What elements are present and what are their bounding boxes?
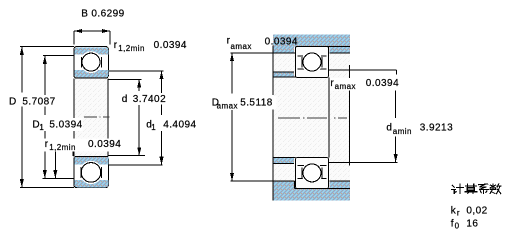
- B extension right / r callout: [109, 31, 111, 45]
- d extension bottom: [109, 155, 146, 157]
- bearing top half (left view): [74, 47, 108, 78]
- bore strip (between halves) hatched: [74, 78, 109, 156]
- shaft shoulder top-left: [273, 72, 296, 77]
- svg-text:r: r: [457, 208, 460, 217]
- svg-text:amin: amin: [393, 127, 412, 136]
- glyph shu 数: [490, 184, 501, 194]
- axis centerline (left view): [84, 116, 110, 118]
- svg-text:4.4094: 4.4094: [163, 120, 196, 131]
- arrow D1 bottom: [43, 170, 47, 178]
- svg-text:1,2min: 1,2min: [49, 143, 76, 152]
- svg-text:5.5118: 5.5118: [240, 98, 273, 109]
- arrow Damax top: [230, 53, 234, 61]
- label d1 4.4094: [145, 118, 196, 132]
- d dimension line: [138, 79, 140, 91]
- label D 5.7087: [8, 95, 56, 108]
- arrow d1 top: [159, 71, 163, 79]
- ball: [82, 53, 100, 71]
- arrow Damax bottom: [230, 173, 234, 181]
- shaft right face line: [328, 78, 330, 158]
- B extension left: [73, 31, 75, 45]
- svg-text:0.0394: 0.0394: [265, 37, 298, 48]
- Damax dimension line: [231, 53, 233, 94]
- label damin 3.9213: [385, 122, 453, 136]
- svg-text:d: d: [386, 122, 392, 133]
- svg-text:16: 16: [466, 219, 478, 230]
- D extension top: [20, 46, 74, 48]
- mounted bearing top half: [296, 46, 329, 77]
- svg-text:3.7402: 3.7402: [133, 94, 166, 105]
- svg-text:3.9213: 3.9213: [420, 122, 453, 133]
- svg-text:amax: amax: [217, 101, 238, 110]
- svg-text:0.0394: 0.0394: [154, 40, 187, 51]
- D1 extension top: [43, 55, 74, 57]
- shaft shoulder bottom-left: [273, 158, 296, 164]
- arrow B right: [102, 29, 110, 33]
- svg-text:5.0394: 5.0394: [49, 119, 82, 130]
- outer ring band (bottom): [75, 180, 109, 187]
- arrow D1 top: [43, 56, 47, 64]
- svg-text:amax: amax: [335, 82, 356, 91]
- axis centerline (right view): [278, 117, 347, 119]
- D1 extension bottom: [43, 177, 74, 179]
- housing top block: [273, 34, 350, 53]
- d1 extension bottom: [109, 164, 163, 166]
- outer ring band: [75, 47, 109, 54]
- damin dimension line: [395, 88, 397, 118]
- inner ring band (top): [75, 157, 109, 165]
- glyph suan 算: [465, 184, 477, 193]
- arrow B left: [74, 29, 82, 33]
- D1 dimension line: [44, 56, 46, 115]
- glyph xi 系: [479, 184, 489, 194]
- arrow r12 bottom: [53, 170, 57, 178]
- housing/shaft left edge line: [272, 46, 274, 201]
- label r 1,2min 0.0394 (bottom): [44, 138, 122, 152]
- r12 bottom leader: [54, 151, 56, 178]
- label r amax 0.0394 (right middle): [329, 78, 399, 91]
- inner ring band: [75, 70, 109, 78]
- svg-text:B: B: [81, 8, 88, 19]
- svg-text:d: d: [122, 94, 128, 105]
- damin extension bottom: [328, 161, 397, 163]
- svg-text:1: 1: [39, 123, 44, 132]
- svg-text:amax: amax: [231, 42, 252, 51]
- groove gap: [80, 51, 102, 73]
- r12 corner tick: [72, 151, 74, 156]
- svg-text:f: f: [451, 219, 454, 230]
- svg-text:0.0394: 0.0394: [88, 139, 121, 150]
- svg-text:0.0394: 0.0394: [366, 78, 399, 89]
- svg-text:r: r: [114, 40, 118, 51]
- d1 dimension line: [161, 71, 163, 115]
- D dimension line: [21, 47, 23, 93]
- shoulder faces: [80, 57, 82, 67]
- housing bottom block: [230, 181, 349, 201]
- shaft / interior hatch background: [273, 34, 350, 200]
- d1 extension top: [109, 70, 164, 72]
- shoulder faces: [80, 167, 82, 178]
- label kr 0,02: [451, 205, 488, 217]
- B dimension line: [74, 30, 110, 32]
- Damax extension top: [230, 52, 295, 54]
- svg-text:D: D: [9, 97, 17, 108]
- svg-text:1,2min: 1,2min: [118, 44, 145, 53]
- label r amax 0.0394 (top right): [226, 36, 298, 51]
- ramax right extension: [329, 69, 397, 71]
- label d 3.7402: [121, 93, 167, 105]
- svg-text:r: r: [45, 139, 49, 150]
- svg-text:k: k: [451, 205, 457, 216]
- d extension top: [109, 78, 142, 80]
- mounted bearing bottom half: [296, 158, 329, 189]
- groove gap: [79, 161, 102, 184]
- bearing bottom half (left view): [74, 156, 108, 187]
- housing outer edge extension: [348, 65, 350, 166]
- label f0 16: [451, 219, 479, 231]
- heading 计算系数 (calculation factors) drawn as strokes: [452, 184, 501, 194]
- svg-text:0.6299: 0.6299: [91, 8, 124, 19]
- arrow d1 bottom: [159, 157, 163, 165]
- arrow damin bottom: [394, 154, 398, 162]
- arrow D top: [20, 47, 24, 55]
- label r 1,2min 0.0394 (top): [113, 40, 187, 54]
- ball: [81, 163, 101, 183]
- label B 0.6299: [81, 8, 124, 19]
- svg-text:0: 0: [455, 222, 460, 231]
- svg-text:5.7087: 5.7087: [22, 97, 55, 108]
- glyph ji 计: [452, 184, 464, 193]
- D extension bottom: [20, 186, 74, 188]
- label D1 5.0394: [31, 118, 82, 132]
- arrow D bottom: [20, 179, 24, 187]
- arrow d top: [137, 79, 141, 87]
- svg-text:0,02: 0,02: [466, 205, 487, 216]
- svg-text:1: 1: [151, 123, 156, 132]
- label Damax 5.5118: [211, 96, 277, 110]
- arrow d bottom: [137, 147, 141, 155]
- outer+inner ring white body: [74, 47, 108, 78]
